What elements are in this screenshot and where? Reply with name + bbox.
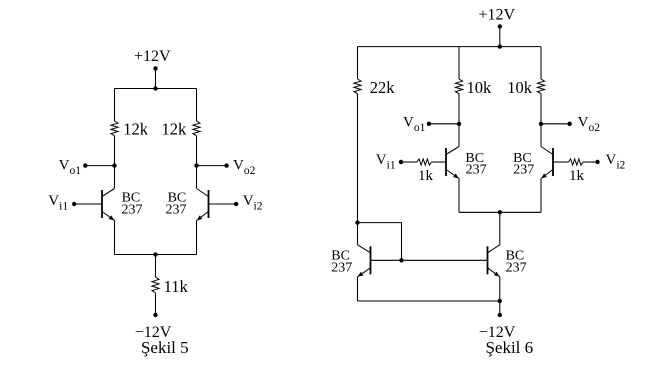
resistor 10k mid (455, 79, 462, 94)
terminal Vo2 (Şekil 5) (224, 163, 228, 167)
svg-text:+12V: +12V (134, 48, 171, 65)
svg-text:22k: 22k (370, 78, 396, 97)
wire Vo1 node to Q5 collector (458, 124, 460, 147)
junction bottom rail (Şekil 6) (498, 299, 502, 303)
svg-text:237: 237 (331, 261, 352, 276)
resistor 1k left (417, 159, 432, 165)
junction top rail (Şekil 6) (498, 44, 502, 48)
wire top rail (Şekil 5) (115, 88, 197, 90)
wire +12V to top rail (Şekil 6) (499, 27, 501, 47)
wire 1k to Vi2 terminal (583, 161, 598, 163)
svg-text:12k: 12k (123, 120, 149, 139)
wire Vo1 stub (Şekil 6) (429, 123, 459, 125)
wire Vo2 stub (197, 165, 227, 167)
svg-text:237: 237 (466, 163, 487, 178)
wire bottom rail (Şekil 6) (358, 300, 500, 302)
junction jumper to base rail (399, 258, 403, 262)
wire Vi1 lead to 1k (401, 161, 417, 163)
node Vo2 junction (Şekil 6) (539, 122, 543, 126)
terminal Vi2 (Şekil 6) (595, 160, 599, 164)
svg-text:+12V: +12V (479, 6, 516, 23)
wire +12V to top rail (Şekil 5) (155, 68, 157, 88)
resistor 11k (152, 277, 159, 293)
resistor 10k right (537, 79, 544, 94)
terminal -12V (Şekil 5) (153, 313, 157, 317)
terminal Vo1 (Şekil 6) (427, 122, 431, 126)
svg-text:1k: 1k (418, 168, 434, 184)
wire Vi2 base lead (209, 203, 237, 205)
svg-text:10k: 10k (467, 78, 493, 97)
terminal +12V (Şekil 6) (498, 24, 502, 28)
wire 11k to -12V (155, 293, 157, 315)
node Vo2 junction (Şekil 5) (194, 163, 198, 167)
transistor Q5 BC237 (diff left, Şekil 6) (445, 148, 447, 176)
svg-text:12k: 12k (162, 120, 188, 139)
node Vo1 junction (Şekil 6) (457, 122, 461, 126)
wire Q2 emitter down (196, 220, 198, 254)
wire 22k branch top (357, 47, 359, 79)
wire 1k to Q5 base (432, 161, 447, 163)
wire 10k to Vo1 node (458, 94, 460, 124)
terminal +12V (Şekil 5) (153, 66, 157, 70)
junction diff emitter rail (498, 210, 502, 214)
wire Q6 emitter down (540, 179, 542, 213)
wire Vo2 node to Q2 collector (196, 166, 198, 189)
wire top rail (Şekil 6) (358, 46, 542, 48)
wire Vo2 node to Q6 collector (540, 124, 542, 147)
transistor Q4 BC237 (mirror right, Şekil 6) (487, 246, 489, 274)
wire Vo2 stub (Şekil 6) (541, 123, 570, 125)
resistor 12k right (193, 121, 200, 136)
svg-text:Şekil 6: Şekil 6 (485, 338, 533, 357)
svg-text:10k: 10k (507, 78, 533, 97)
wire emitter rail (Şekil 5) (115, 254, 197, 256)
junction mirror collector node (355, 220, 359, 224)
wire Vo1 node to Q1 collector (114, 166, 116, 189)
wire mid branch top (458, 47, 460, 79)
node Vo1 junction (Şekil 5) (112, 163, 116, 167)
wire mirror jumper (358, 223, 402, 261)
wire diff emitter rail (459, 211, 541, 213)
terminal Vi1 (Şekil 6) (399, 160, 403, 164)
svg-text:237: 237 (166, 202, 187, 217)
wire 22k down to mirror node (357, 94, 359, 223)
wire to 11k (155, 255, 157, 278)
wire Q1 emitter down (114, 220, 116, 254)
terminal Vi1 (Şekil 5) (72, 202, 76, 206)
wire node to Q3 collector (357, 223, 359, 245)
wire left branch top (Şekil 5) (114, 89, 116, 122)
terminal Vo2 (Şekil 6) (567, 122, 571, 126)
wire to -12V terminal (Şekil 6) (499, 301, 501, 315)
transistor Q2 BC237 (right, Şekil 5) (208, 190, 210, 218)
terminal Vo1 (Şekil 5) (83, 163, 87, 167)
wire Vo1 stub (85, 165, 114, 167)
svg-text:Şekil 5: Şekil 5 (141, 338, 189, 357)
svg-text:237: 237 (122, 202, 143, 217)
wire right branch top (Şekil 5) (196, 89, 198, 122)
wire Vi1 base lead (74, 203, 102, 205)
svg-text:237: 237 (513, 163, 534, 178)
terminal -12V (Şekil 6) (498, 313, 502, 317)
wire mirror base rail (371, 259, 488, 261)
wire Q6 base to 1k (553, 161, 569, 163)
wire 12k to Vo2 node (196, 136, 198, 166)
resistor 22k (354, 79, 361, 94)
resistor 1k right (569, 159, 584, 165)
terminal Vi2 (Şekil 5) (234, 202, 238, 206)
transistor Q3 BC237 (mirror left, Şekil 6) (370, 246, 372, 274)
wire 12k to Vo1 node (114, 136, 116, 166)
svg-text:237: 237 (506, 261, 527, 276)
wire rail to Q4 collector (499, 212, 501, 245)
junction top rail center (Şekil 5) (153, 86, 157, 90)
wire right branch top (540, 47, 542, 79)
wire Q5 emitter down (458, 179, 460, 213)
svg-text:1k: 1k (569, 168, 585, 184)
junction emitter rail center (Şekil 5) (153, 252, 157, 256)
transistor Q6 BC237 (diff right, Şekil 6) (552, 148, 554, 176)
transistor Q1 BC237 (left, Şekil 5) (101, 190, 103, 218)
wire Q4 emitter down (499, 277, 501, 301)
wire Q3 emitter down (357, 277, 359, 301)
resistor 12k left (111, 121, 118, 136)
svg-text:11k: 11k (164, 277, 189, 296)
wire 10k to Vo2 node (540, 94, 542, 124)
